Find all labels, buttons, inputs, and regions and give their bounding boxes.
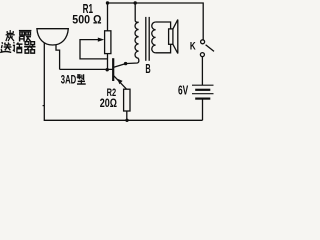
svg-text:6V: 6V [178, 83, 188, 98]
svg-text:500 Ω: 500 Ω [72, 12, 101, 26]
svg-text:B: B [145, 61, 150, 76]
svg-text:20Ω: 20Ω [100, 98, 117, 110]
svg-text:3AD: 3AD [61, 73, 76, 87]
svg-text:K: K [190, 40, 196, 52]
